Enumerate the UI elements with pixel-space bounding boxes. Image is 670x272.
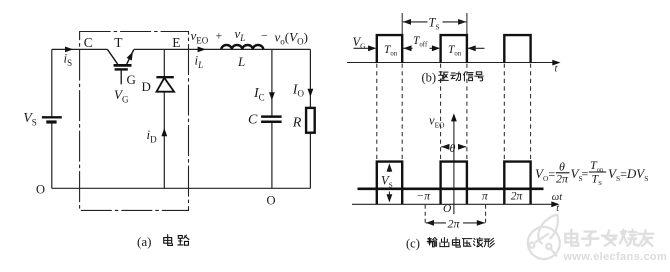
svg-text:O: O [36, 182, 45, 196]
arrow after pulse2 [468, 45, 476, 51]
svg-text:IC: IC [253, 86, 265, 102]
dimension VS in pulse1: up arrow [387, 163, 393, 171]
dashed drop at -pi [424, 205, 426, 226]
transistor T gate lead [120, 71, 122, 85]
svg-text:Ton: Ton [384, 44, 398, 58]
svg-text:vo(VO): vo(VO) [275, 29, 308, 46]
svg-text:(b): (b) [422, 71, 437, 85]
diode D triangle [157, 78, 175, 92]
svg-text:(a): (a) [137, 234, 151, 249]
svg-text:O: O [267, 194, 276, 208]
transistor T (IGBT) collector diagonal [107, 49, 117, 64]
svg-text:O: O [443, 203, 452, 215]
svg-text:iS: iS [64, 51, 73, 68]
watermark text 电子发烧友 [565, 230, 653, 246]
watermark leaf [538, 215, 558, 245]
wire diode branch [163, 49, 165, 188]
pulse 1 of (c) [377, 162, 402, 205]
watermark circuit trace [535, 234, 557, 257]
wire right rail lower (from resistor) [309, 133, 311, 189]
resistor R body [306, 108, 315, 133]
watermark logo circle [528, 227, 560, 259]
dash-dot enclosure box [80, 32, 189, 211]
svg-text:L: L [237, 54, 245, 69]
arrow iD upward on diode branch [161, 128, 167, 136]
svg-text:+: + [216, 29, 223, 43]
dimension TS [458, 19, 466, 25]
dashed line pulse3 right [530, 64, 532, 161]
svg-text:G: G [127, 72, 136, 87]
svg-text:vEO: vEO [191, 28, 209, 45]
formula VO = theta/2pi VS = Ton/TS VS = D VS [535, 158, 648, 187]
transistor T upper bar [114, 64, 132, 67]
dashed line pulse3 left [503, 64, 505, 161]
dimension theta [441, 144, 449, 150]
svg-text:T: T [114, 35, 123, 50]
svg-text:2π: 2π [511, 191, 524, 203]
extension line pulse1 right [401, 13, 403, 35]
diode D cathode bar [156, 76, 173, 78]
arrow iS on top wire [65, 47, 73, 53]
arrow iL on output wire [198, 47, 206, 53]
svg-text:VS=DVS: VS=DVS [608, 166, 648, 183]
transistor T emitter diagonal with arrow [127, 50, 134, 64]
inductor L coil [221, 45, 263, 49]
svg-text:vL: vL [235, 26, 246, 43]
pulse 3 of (c) [504, 162, 530, 205]
arrow IO downward on load branch [308, 89, 314, 97]
dimension VS in pulse1: down arrow [387, 194, 393, 202]
vEO vertical axis [453, 117, 455, 214]
capacitor C bottom plate [261, 121, 282, 124]
svg-text:R: R [292, 116, 302, 131]
extension line pulse2 right [466, 13, 468, 35]
svg-text:iD: iD [147, 127, 158, 144]
dashed line pulse2 left [440, 64, 442, 161]
svg-text:VG: VG [114, 87, 129, 104]
dashed projection lines [377, 64, 531, 161]
svg-text:vEO: vEO [429, 114, 445, 130]
average VO thick line [358, 188, 544, 191]
svg-text:VS: VS [23, 111, 37, 127]
svg-text:t: t [555, 64, 559, 75]
svg-text:www.elecfans.com: www.elecfans.com [563, 251, 668, 263]
dashed line pulse1 left [376, 64, 378, 161]
wire top from transistor emitter to output corner [134, 48, 311, 50]
svg-text:π: π [482, 191, 489, 203]
transistor T gate bar [115, 68, 128, 70]
wire left rail lower (VS bottom) [51, 122, 53, 188]
svg-text:t: t [556, 203, 560, 214]
svg-text:θ: θ [450, 141, 456, 155]
svg-text:D: D [142, 79, 151, 94]
pulse 1 of (b) [377, 35, 402, 63]
svg-text:2π: 2π [448, 217, 461, 231]
dashed line pulse1 right [401, 64, 403, 161]
svg-text:E: E [172, 35, 180, 50]
wire left rail upper (VS top) [51, 49, 53, 117]
svg-text:VS: VS [381, 174, 393, 190]
axis omega-t of (c) [352, 203, 556, 205]
svg-text:=: = [582, 167, 589, 181]
svg-text:C: C [248, 113, 258, 128]
arrow VG [354, 47, 373, 49]
arrow IC downward on capacitor branch [269, 92, 275, 100]
svg-text:(c): (c) [406, 237, 420, 251]
battery VS plate short [46, 120, 56, 123]
svg-text:2π: 2π [556, 172, 569, 186]
axis t of (b) [347, 62, 557, 64]
wire right rail upper (to resistor) [309, 49, 311, 108]
wire top from left rail to transistor collector bend [52, 48, 108, 50]
dashed drop at pi [485, 205, 487, 226]
battery VS plate long [42, 116, 62, 118]
capacitor C top plate [261, 115, 282, 118]
svg-text:C: C [84, 35, 93, 50]
svg-text:IO: IO [292, 82, 305, 98]
svg-text:iL: iL [195, 53, 204, 70]
wire bottom rail [52, 187, 311, 189]
dimension 2pi [426, 220, 434, 226]
wire capacitor branch lower [271, 122, 273, 188]
svg-text:ωt: ωt [552, 192, 563, 203]
pulse 2 of (b) [441, 35, 467, 63]
pulse 3 of (b) [504, 35, 530, 63]
wire capacitor branch upper [271, 49, 273, 116]
pulse 2 of (c) [441, 162, 467, 205]
svg-text:VO=: VO= [535, 166, 555, 183]
svg-text:Toff: Toff [413, 35, 428, 49]
dashed line pulse2 right [466, 64, 468, 161]
svg-text:−π: −π [417, 191, 432, 203]
svg-text:TS: TS [429, 16, 440, 32]
svg-text:TS: TS [592, 172, 603, 187]
svg-text:−: − [261, 29, 268, 43]
svg-text:Ton: Ton [448, 44, 462, 58]
